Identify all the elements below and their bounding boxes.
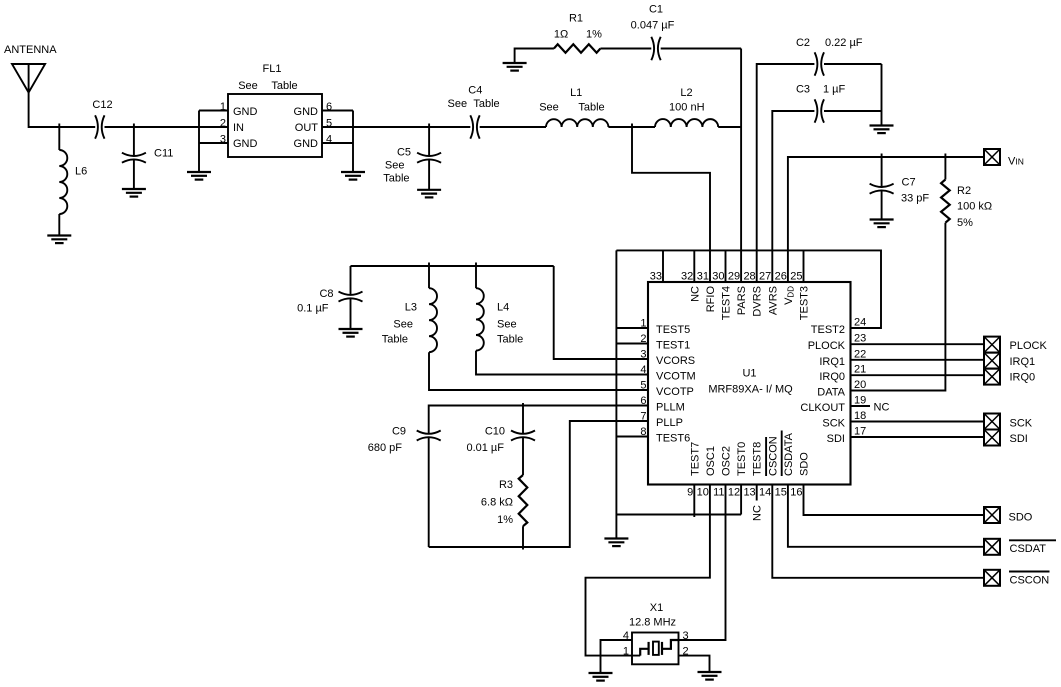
wire PLLM pin6 net [429, 406, 648, 434]
wire OSC2 pin11 to X1 pin3 [679, 485, 726, 641]
X1 pin numbers [623, 630, 689, 658]
wire L1 to L2 [608, 126, 655, 128]
svg-text:3: 3 [640, 349, 646, 361]
svg-text:IN: IN [233, 122, 244, 134]
C2 labels [796, 37, 863, 49]
svg-text:33 pF: 33 pF [901, 193, 929, 205]
svg-text:C2: C2 [796, 37, 810, 49]
svg-text:27: 27 [759, 271, 771, 283]
wire L2 to node [718, 126, 741, 128]
svg-text:Table: Table [497, 334, 523, 346]
svg-text:See: See [238, 80, 258, 92]
wire C3 right to ground [824, 64, 882, 125]
svg-text:L6: L6 [75, 166, 87, 178]
svg-text:10: 10 [697, 487, 709, 499]
wire pin33 stub [662, 250, 664, 282]
wire PLOCK pin23 [851, 343, 985, 345]
svg-text:4: 4 [640, 364, 646, 376]
filter FL1 box [228, 94, 322, 157]
svg-text:SDI: SDI [1010, 433, 1028, 445]
capacitor C12 [95, 115, 104, 138]
inductor L4 [476, 263, 648, 375]
svg-text:L2: L2 [680, 87, 692, 99]
connector CSCON [984, 570, 1000, 586]
svg-text:MRF89XA- I/ MQ: MRF89XA- I/ MQ [708, 384, 793, 396]
capacitor C2 [815, 52, 824, 75]
svg-text:7: 7 [640, 411, 646, 423]
svg-text:IRQ0: IRQ0 [1010, 372, 1036, 384]
svg-text:5: 5 [640, 380, 646, 392]
svg-text:0.047 µF: 0.047 µF [631, 20, 675, 32]
wire CSDATA pin15 to connector [788, 485, 984, 547]
svg-text:17: 17 [854, 426, 866, 438]
svg-text:See: See [448, 98, 468, 110]
svg-text:AVRS: AVRS [767, 286, 779, 315]
svg-text:9: 9 [687, 487, 693, 499]
wire R2 to DATA pin20 [851, 223, 946, 391]
ground X1 pin2 [698, 672, 722, 680]
svg-text:25: 25 [790, 271, 802, 283]
IC right pin names [800, 324, 845, 445]
resistor R1 [554, 44, 601, 52]
capacitor C10 [511, 403, 535, 475]
svg-text:See: See [539, 102, 559, 114]
wire C12 to FL1 [105, 126, 229, 128]
svg-text:IRQ1: IRQ1 [819, 356, 845, 368]
svg-text:14: 14 [759, 487, 771, 499]
svg-text:Table: Table [382, 334, 408, 346]
ground FL1 right [341, 172, 365, 180]
wire CLKOUT pin19 NC stub [851, 405, 871, 407]
svg-text:CSCON: CSCON [1010, 574, 1050, 586]
L3 labels [382, 302, 417, 346]
svg-text:2: 2 [683, 646, 689, 658]
svg-text:680 pF: 680 pF [368, 442, 403, 454]
C5 label [383, 147, 411, 185]
svg-text:X1: X1 [650, 602, 663, 614]
svg-text:GND: GND [294, 138, 319, 150]
svg-text:TEST7: TEST7 [689, 442, 701, 476]
svg-text:15: 15 [775, 487, 787, 499]
svg-text:C9: C9 [392, 426, 406, 438]
svg-text:R1: R1 [569, 13, 583, 25]
FL1 left ground bus [199, 111, 228, 172]
svg-text:TEST1: TEST1 [656, 340, 690, 352]
svg-text:R3: R3 [499, 479, 513, 491]
svg-text:PLOCK: PLOCK [1010, 340, 1048, 352]
IC top pin numbers [650, 271, 803, 283]
L1 label [539, 87, 604, 114]
svg-text:100 kΩ: 100 kΩ [957, 201, 992, 213]
wire pin13 NC stub [756, 485, 758, 501]
svg-text:20: 20 [854, 379, 866, 391]
svg-text:1 µF: 1 µF [823, 84, 846, 96]
IC bottom pin names rotated [689, 431, 810, 477]
svg-text:C12: C12 [92, 99, 112, 111]
crystal X1 element [640, 640, 678, 656]
svg-text:R2: R2 [957, 185, 971, 197]
svg-text:18: 18 [854, 410, 866, 422]
R3 labels [481, 479, 513, 526]
svg-text:8: 8 [640, 426, 646, 438]
wire R1 to C1 [600, 48, 651, 50]
svg-text:Table: Table [271, 80, 297, 92]
svg-text:L1: L1 [570, 87, 582, 99]
svg-text:ANTENNA: ANTENNA [4, 44, 57, 56]
svg-text:VCOTP: VCOTP [656, 386, 694, 398]
svg-text:33: 33 [650, 271, 662, 283]
ground C2C3 [870, 126, 894, 134]
svg-text:See: See [497, 319, 517, 331]
wire loop bottom to PLLP pin7 [429, 421, 648, 547]
ground L6 [47, 236, 71, 244]
svg-text:OSC2: OSC2 [721, 446, 733, 476]
svg-text:12.8 MHz: 12.8 MHz [629, 617, 676, 629]
L4 labels [497, 302, 523, 346]
capacitor C11 [122, 124, 146, 189]
connector SCK [984, 414, 1000, 430]
IC top pin names rotated [689, 286, 810, 321]
svg-text:C10: C10 [485, 426, 505, 438]
wire pin2 stub [616, 343, 648, 345]
svg-text:FL1: FL1 [263, 63, 282, 75]
IC left pin names [656, 324, 696, 445]
wire pin30 stub [725, 250, 727, 282]
svg-text:CSCON: CSCON [767, 436, 779, 476]
L2 label [669, 87, 705, 114]
connector IRQ0 [984, 369, 1000, 385]
svg-text:3: 3 [220, 133, 226, 145]
connector PLOCK [984, 337, 1000, 353]
svg-text:Table: Table [473, 98, 499, 110]
svg-text:C5: C5 [397, 147, 411, 159]
inductor L6 [59, 124, 67, 236]
svg-text:1: 1 [623, 646, 629, 658]
svg-text:NC: NC [689, 286, 701, 302]
svg-text:PLLP: PLLP [656, 417, 683, 429]
FL1 right ground bus [322, 111, 353, 172]
connector SDO [984, 507, 1000, 523]
wire junction to RFIO pin31 [632, 124, 710, 283]
C8 labels [297, 288, 333, 315]
resistor R3 [519, 475, 528, 526]
svg-text:21: 21 [854, 364, 866, 376]
svg-text:TEST3: TEST3 [799, 286, 811, 320]
svg-text:CSDAT: CSDAT [1010, 543, 1047, 555]
C10 labels [466, 426, 505, 455]
svg-text:CLKOUT: CLKOUT [800, 402, 845, 414]
ground C11 [122, 189, 146, 197]
wire DVRS pin28 to C2 [757, 64, 815, 282]
svg-text:32: 32 [681, 271, 693, 283]
svg-text:C11: C11 [154, 148, 173, 160]
svg-text:NC: NC [874, 402, 890, 414]
FL1 labels [238, 63, 297, 92]
svg-text:Table: Table [383, 173, 409, 185]
wire pin8 stub [616, 436, 648, 438]
C1 labels [631, 4, 675, 32]
svg-text:12: 12 [728, 487, 740, 499]
svg-text:16: 16 [790, 487, 802, 499]
C7 labels [901, 177, 929, 205]
svg-text:SDO: SDO [1009, 512, 1033, 524]
svg-text:23: 23 [854, 333, 866, 345]
crystal X1 box [632, 633, 679, 665]
svg-text:OUT: OUT [295, 122, 319, 134]
wire VDD pin26 to VIN [788, 157, 984, 282]
C9 labels [368, 426, 406, 455]
R1 labels [554, 13, 602, 41]
svg-text:100 nH: 100 nH [669, 102, 705, 114]
wire gnd to R1 [515, 49, 554, 63]
inductor L1 [546, 119, 608, 127]
capacitor C7 [870, 154, 894, 220]
svg-text:26: 26 [775, 271, 787, 283]
svg-text:SDO: SDO [799, 452, 811, 476]
inductor L2 [655, 119, 718, 127]
CSCON label overlined [1009, 572, 1050, 587]
wire OSC1 pin10 to X1 [586, 485, 710, 656]
svg-text:See: See [385, 160, 405, 172]
svg-text:TEST2: TEST2 [811, 324, 845, 336]
svg-text:0.01 µF: 0.01 µF [466, 442, 504, 454]
svg-text:0.22 µF: 0.22 µF [825, 37, 863, 49]
capacitor C3 [815, 99, 824, 122]
connector CSDAT [984, 539, 1000, 555]
wire SDI pin17 [851, 436, 985, 438]
svg-text:VIN: VIN [1008, 156, 1024, 168]
svg-text:TEST6: TEST6 [656, 433, 690, 445]
wire CSCON pin14 to connector [772, 485, 984, 578]
wire SDO pin16 to connector [804, 485, 985, 516]
ground X1 pin4 [589, 673, 613, 681]
svg-text:SDI: SDI [827, 433, 845, 445]
svg-text:IRQ1: IRQ1 [1010, 356, 1036, 368]
svg-text:11: 11 [713, 487, 724, 499]
svg-text:TEST4: TEST4 [721, 286, 733, 320]
svg-text:TEST0: TEST0 [736, 442, 748, 476]
wire pin1 stub [616, 327, 648, 329]
svg-text:VCORS: VCORS [656, 355, 695, 367]
svg-text:3: 3 [683, 630, 689, 642]
capacitor C1 [651, 37, 660, 60]
ground C8 [339, 329, 363, 337]
svg-text:VCOTM: VCOTM [656, 371, 696, 383]
wire R3 bottom overshoot [522, 526, 524, 549]
wire VCORS pin3 [554, 266, 648, 359]
R2 labels [957, 185, 992, 229]
svg-text:RFIO: RFIO [705, 286, 717, 313]
C3 labels [796, 84, 846, 96]
svg-text:28: 28 [743, 271, 755, 283]
svg-text:22: 22 [854, 348, 866, 360]
wire bottom gnd row pins 9 12 [616, 485, 741, 518]
X1 pin2 wire to ground [679, 656, 710, 671]
X1 labels [629, 602, 676, 629]
svg-text:4: 4 [623, 630, 629, 642]
wire IRQ1 pin22 [851, 359, 985, 361]
wire C1 to PARS node [661, 48, 741, 50]
connector IRQ1 [984, 353, 1000, 369]
svg-text:30: 30 [712, 271, 724, 283]
connector VIN [984, 149, 1000, 165]
ground R1 [503, 63, 527, 71]
wire SCK pin18 [851, 421, 985, 423]
svg-text:DVRS: DVRS [752, 286, 764, 317]
svg-text:GND: GND [294, 106, 319, 118]
svg-text:GND: GND [233, 138, 258, 150]
inductor L3 [429, 263, 648, 391]
IC U1 box [648, 282, 851, 485]
svg-text:29: 29 [728, 271, 740, 283]
wire FL1 OUT to C4 [322, 126, 470, 128]
svg-text:L3: L3 [405, 302, 417, 314]
wire C4 to L1 [480, 126, 546, 128]
svg-text:U1: U1 [742, 368, 756, 380]
svg-text:PLOCK: PLOCK [808, 340, 846, 352]
svg-text:TEST8: TEST8 [752, 442, 764, 476]
svg-text:PARS: PARS [736, 286, 748, 315]
svg-text:L4: L4 [497, 302, 509, 314]
svg-text:PLLM: PLLM [656, 402, 685, 414]
svg-text:2: 2 [640, 333, 646, 345]
svg-text:5%: 5% [957, 217, 973, 229]
wire AVRS pin27 to C3 [772, 111, 814, 282]
svg-text:OSC1: OSC1 [705, 446, 717, 476]
wire pin32 stub [693, 250, 695, 282]
wire antenna feed [29, 92, 96, 127]
wire C2 right [824, 63, 882, 65]
svg-text:19: 19 [854, 395, 866, 407]
svg-text:6: 6 [640, 395, 646, 407]
svg-text:IRQ0: IRQ0 [819, 371, 845, 383]
IC right pin numbers [854, 317, 866, 438]
ground left bus [604, 539, 628, 547]
svg-text:13: 13 [743, 487, 755, 499]
svg-text:0.1 µF: 0.1 µF [297, 303, 329, 315]
wire IRQ0 pin21 [851, 374, 985, 376]
IC bottom pin numbers [687, 487, 802, 499]
svg-text:6.8 kΩ: 6.8 kΩ [481, 497, 513, 509]
wire PARS vertical pin29 [740, 49, 742, 283]
ground C5 [417, 190, 441, 198]
capacitor C5 [417, 124, 441, 190]
svg-text:1Ω: 1Ω [554, 29, 568, 41]
svg-text:1: 1 [640, 318, 646, 330]
svg-text:SCK: SCK [822, 418, 845, 430]
connector SDI [984, 430, 1000, 446]
svg-text:C4: C4 [468, 85, 482, 97]
CSDAT label overlined [1009, 540, 1056, 555]
svg-text:31: 31 [697, 271, 709, 283]
svg-text:1%: 1% [586, 29, 602, 41]
ground C7 [870, 220, 894, 228]
ground FL1 left [187, 172, 211, 180]
svg-text:C7: C7 [902, 177, 916, 189]
svg-text:C1: C1 [649, 4, 663, 16]
svg-text:TEST5: TEST5 [656, 324, 690, 336]
wire left ground bus [615, 250, 617, 537]
svg-text:1: 1 [220, 101, 226, 113]
svg-text:Table: Table [578, 102, 604, 114]
wire top test rail [616, 250, 881, 328]
C4 label [448, 85, 500, 111]
svg-text:NC: NC [752, 505, 764, 521]
svg-text:SCK: SCK [1010, 418, 1033, 430]
svg-text:DATA: DATA [817, 387, 845, 399]
antenna [12, 64, 45, 93]
svg-text:CSDATA: CSDATA [783, 432, 795, 476]
FL1 pin numbers [220, 101, 332, 145]
capacitor C4 [470, 115, 479, 138]
svg-text:C3: C3 [796, 84, 810, 96]
svg-text:2: 2 [220, 118, 226, 130]
FL1 pin names [233, 106, 318, 150]
IC left pin numbers [640, 318, 646, 439]
svg-text:GND: GND [233, 106, 258, 118]
svg-text:1%: 1% [497, 514, 513, 526]
capacitor C9 [417, 431, 441, 548]
svg-text:C8: C8 [319, 288, 333, 300]
X1 pin4 wire to ground [601, 640, 633, 672]
svg-text:See: See [393, 319, 413, 331]
svg-text:24: 24 [854, 317, 866, 329]
wire pin25 stub [803, 250, 805, 282]
capacitor C8 [339, 266, 363, 329]
resistor R2 [941, 154, 950, 223]
wire VCO rail [351, 265, 554, 267]
